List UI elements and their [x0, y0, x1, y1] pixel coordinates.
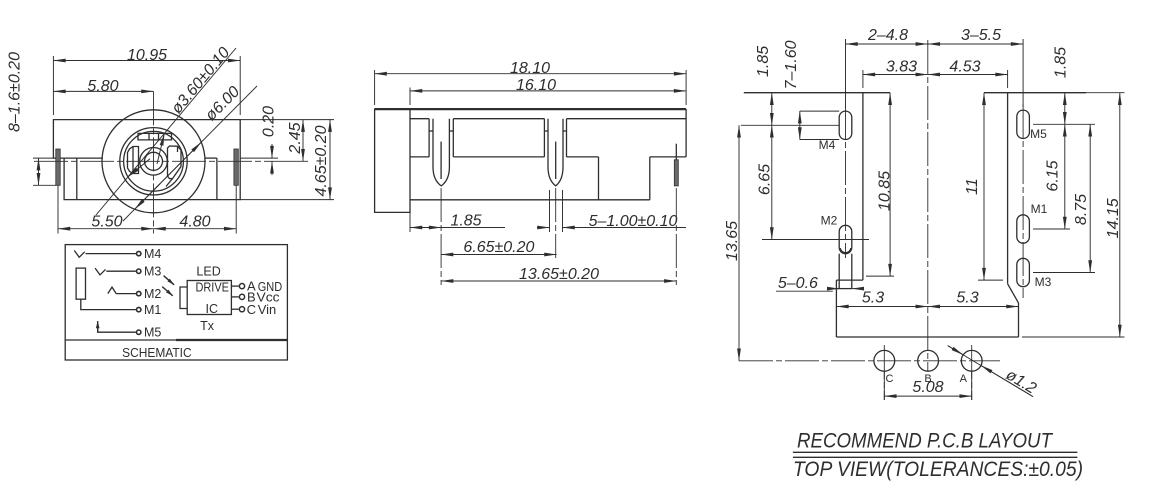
dimension 8-1.6±0.20 [33, 157, 53, 159]
dimension 18.10 [374, 70, 376, 105]
mounting flange [375, 109, 410, 212]
svg-text:C: C [886, 373, 894, 385]
svg-text:4.80: 4.80 [179, 213, 210, 230]
dimension 6.65 (pcb) [771, 125, 773, 239]
svg-text:8.75: 8.75 [1073, 194, 1090, 225]
svg-text:18.10: 18.10 [510, 60, 550, 77]
dimension 4.53 [1007, 70, 1009, 88]
hole A [961, 350, 982, 371]
cavity vertical [598, 157, 600, 200]
svg-text:RECOMMEND P.C.B LAYOUT: RECOMMEND P.C.B LAYOUT [797, 430, 1054, 453]
photo receiver bracket [180, 287, 187, 309]
leader Ø3.60±0.10 [96, 48, 236, 215]
svg-text:M1: M1 [1031, 202, 1048, 216]
svg-text:13.65±0.20: 13.65±0.20 [519, 266, 599, 283]
svg-text:6.15: 6.15 [1045, 160, 1062, 191]
plate right edge [1018, 303, 1020, 337]
pad M2 slot [838, 254, 840, 289]
svg-text:14.15: 14.15 [1105, 198, 1122, 238]
barrel circle Ø6.00 [102, 110, 205, 213]
svg-text:4.53: 4.53 [949, 59, 980, 76]
dimension 5.08 [883, 371, 885, 400]
pin A [231, 285, 238, 287]
hole C vertical centerline [883, 345, 885, 400]
svg-text:10.85: 10.85 [877, 171, 894, 211]
centerline horizontal [34, 160, 276, 162]
dimension 5.80 [53, 90, 153, 92]
pad M5 [1017, 110, 1030, 138]
svg-text:M2: M2 [144, 287, 161, 301]
svg-text:8–1.6±0.20: 8–1.6±0.20 [7, 52, 24, 132]
svg-text:6.65±0.20: 6.65±0.20 [463, 239, 534, 256]
tip spring with arrow M5 [97, 321, 99, 332]
pattern top edge right [984, 92, 1086, 94]
pattern top edge left [744, 92, 890, 94]
left slot step [836, 279, 863, 281]
svg-text:2.45: 2.45 [287, 122, 304, 154]
title band line [65, 339, 176, 341]
svg-text:3–5.5: 3–5.5 [961, 27, 1001, 44]
leg 2 [543, 119, 545, 157]
pad M2 drill arc [840, 248, 851, 253]
dimension 7-1.60 [800, 110, 839, 112]
center axis [927, 40, 929, 371]
body bottom [410, 199, 650, 201]
top band bottom edge [410, 118, 429, 120]
svg-text:5–0.6: 5–0.6 [778, 275, 818, 292]
svg-text:Vin: Vin [258, 302, 277, 317]
svg-text:M4: M4 [819, 138, 836, 152]
schematic frame [65, 245, 287, 360]
terminal M4 [137, 251, 141, 255]
M5 center extension [1033, 123, 1095, 125]
wire M4 [86, 253, 136, 255]
body right edge [685, 109, 687, 157]
svg-text:M3: M3 [1035, 275, 1052, 289]
svg-text:ø1.2: ø1.2 [1003, 366, 1039, 397]
terminal M1 [137, 307, 141, 311]
plate bottom edge [836, 336, 1018, 338]
side pin left (hatched) [56, 149, 60, 185]
dimension 1.85 (side) [409, 212, 411, 232]
svg-text:M5: M5 [1030, 127, 1047, 141]
left pad column centerline [845, 105, 847, 258]
shelf line [410, 156, 429, 158]
terminal M3 [137, 269, 141, 273]
wire M1 [81, 299, 136, 309]
sleeve contact [76, 268, 85, 299]
M2 center extension [762, 239, 869, 241]
svg-text:M4: M4 [144, 247, 161, 261]
dimension 13.65 (pcb) [738, 125, 740, 360]
counterbore ring [120, 128, 187, 195]
svg-text:DRIVE: DRIVE [195, 281, 229, 295]
pad M3 [1017, 258, 1030, 286]
hole A vertical centerline [971, 345, 973, 400]
svg-text:3.83: 3.83 [886, 59, 917, 76]
dimension 16.10 [409, 88, 411, 106]
body top line [375, 108, 686, 110]
svg-text:1.85: 1.85 [755, 46, 772, 77]
terminal M5 [137, 330, 141, 334]
svg-text:M1: M1 [144, 303, 161, 317]
plate chamfer [1008, 284, 1019, 303]
dimension 10.95 [52, 56, 54, 115]
svg-text:5.80: 5.80 [87, 78, 118, 95]
svg-text:IC: IC [206, 302, 219, 316]
svg-text:5.3: 5.3 [956, 290, 978, 307]
svg-text:7–1.60: 7–1.60 [783, 40, 800, 89]
svg-text:ø6.00: ø6.00 [202, 83, 243, 124]
dimension 10.85 [889, 93, 891, 276]
dimension 1.85 (pcb right) [1064, 93, 1066, 125]
dimension 6.15 [1064, 124, 1066, 229]
dimension 2-4.8 [845, 39, 847, 108]
svg-text:2–4.8: 2–4.8 [867, 27, 908, 44]
svg-text:10.95: 10.95 [127, 47, 167, 64]
svg-text:1.85: 1.85 [450, 213, 481, 230]
svg-text:4.65±0.20: 4.65±0.20 [313, 125, 330, 196]
side pin right (hatched) [234, 149, 238, 185]
LED drive IC U1 [187, 281, 231, 315]
holes centerline [739, 360, 1000, 362]
dimension 5-1.00±0.10 [549, 190, 551, 232]
svg-text:16.10: 16.10 [516, 77, 556, 94]
svg-text:1.85: 1.85 [1053, 47, 1070, 78]
leg 1 [428, 119, 430, 157]
pin C [231, 308, 238, 310]
switch contact M4 [74, 251, 84, 258]
dimension 3-5.5 [1022, 39, 1024, 107]
wire M5 [98, 324, 136, 333]
svg-text:TOP VIEW(TOLERANCES:±0.05): TOP VIEW(TOLERANCES:±0.05) [793, 458, 1083, 481]
terminal M2 [137, 291, 141, 295]
dimension 11 [983, 93, 985, 280]
dimension 6.65±0.20 [441, 254, 556, 256]
dimension 5.3 left [836, 306, 927, 308]
dimension 5.3 right [928, 306, 1019, 308]
pin B [231, 296, 238, 298]
svg-text:0.20: 0.20 [261, 106, 278, 137]
dimension 3.83 [862, 70, 864, 88]
right pad column centerline [1022, 104, 1024, 298]
svg-text:5.08: 5.08 [912, 379, 943, 396]
svg-text:Tx: Tx [200, 319, 215, 333]
svg-text:C: C [247, 302, 256, 317]
svg-text:11: 11 [964, 178, 981, 195]
svg-text:5.3: 5.3 [862, 290, 884, 307]
svg-text:SCHEMATIC: SCHEMATIC [122, 345, 192, 360]
svg-text:5–1.00±0.10: 5–1.00±0.10 [589, 213, 678, 230]
dimension 8.75 [1089, 124, 1091, 272]
front view internal step lines [64, 157, 103, 159]
hole B [918, 350, 939, 371]
svg-text:M2: M2 [821, 213, 838, 227]
svg-text:13.65: 13.65 [724, 221, 741, 261]
svg-text:M5: M5 [144, 326, 161, 340]
svg-text:M3: M3 [144, 265, 161, 279]
switch contact M3 [95, 268, 105, 275]
right notch vertical [649, 157, 651, 200]
svg-text:6.65: 6.65 [757, 164, 774, 195]
left slot inner edge [862, 93, 864, 280]
right contact [168, 146, 182, 179]
dimension 0.20 [240, 157, 278, 159]
right slot inner edge [1007, 93, 1009, 284]
left tip contact [128, 147, 139, 174]
pad M2 [839, 225, 852, 253]
M4 center extension [741, 124, 839, 126]
LED light arrow 1 [164, 276, 175, 285]
top contact [138, 133, 172, 140]
svg-text:LED: LED [196, 265, 220, 279]
svg-text:5.50: 5.50 [91, 213, 122, 230]
wire M3 [106, 270, 136, 272]
dimension 14.15 [1119, 93, 1121, 337]
dimension 13.65±0.20 [441, 280, 676, 282]
dimension 5.50 / 4.80 [57, 185, 59, 233]
pad M1 [1017, 215, 1030, 243]
center boss inner [145, 152, 163, 170]
plate left edge [835, 280, 837, 337]
leader Ø6.00 [123, 86, 257, 221]
leader Ø1.2 [948, 346, 1033, 397]
dimension 4.65±0.20 [240, 119, 334, 121]
leg centerlines [440, 188, 442, 285]
svg-text:A: A [960, 373, 968, 385]
dimension 1.85 (pcb left) [771, 93, 773, 126]
contact bevel line [166, 179, 173, 187]
pad M4 [839, 111, 852, 139]
dimension 2.45 [302, 120, 304, 162]
hole C [874, 350, 895, 371]
jack opening Ø3.60 [124, 131, 184, 191]
wire M2 [116, 293, 136, 295]
center boss outer [140, 148, 168, 176]
centerline vertical [153, 91, 155, 233]
LED light arrow 2 [162, 287, 173, 296]
front view body outline [53, 120, 240, 200]
rear pin [675, 144, 677, 160]
ring contact M2 [108, 287, 116, 294]
